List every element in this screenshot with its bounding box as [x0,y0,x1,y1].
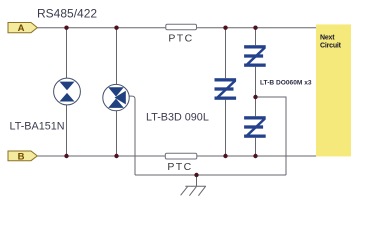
junction B-GDT2 [114,154,118,158]
junction TVS midpoint [253,95,257,99]
svg-text:Next: Next [320,34,335,41]
junction B-D3 [253,154,257,158]
junction A-D1 [223,26,227,30]
wire TVS D2 branch top [255,28,257,46]
wire GDT2 top vertical [116,28,118,85]
svg-text:B: B [18,151,25,162]
svg-text:LT-B DO060M x3: LT-B DO060M x3 [260,80,312,87]
wire GDT2 third electrode to ground bus [129,96,135,175]
wire TVS midpoint tap to ground bus [256,97,287,175]
gas discharge tube GDT1 (LT-BA151N) [54,78,81,105]
junction A-D2 [253,26,257,30]
wire B horizontal from port B to Next Circuit [37,155,316,157]
wire GDT2 bottom vertical [116,111,118,156]
wire ground bus horizontal [135,174,286,176]
junction B-D1 [223,154,227,158]
wire GDT1 bottom vertical [66,105,68,156]
svg-text:LT-BA151N: LT-BA151N [10,121,65,133]
svg-text:RS485/422: RS485/422 [37,7,97,21]
junction ground stem [194,173,198,177]
svg-text:PTC: PTC [168,33,193,45]
wire TVS D2-D3 branch middle [255,67,257,116]
junction B-GDT1 [64,154,68,158]
junction A-GDT1 [64,26,68,30]
resistor PTC top [166,24,197,45]
wire TVS D3 branch bottom [255,138,257,156]
port B [8,151,37,162]
wire A horizontal from port A to Next Circuit [37,27,316,29]
wire TVS D1 branch upper [225,28,227,78]
junction A-GDT2 [114,26,118,30]
TVS D1 left (Z symbol) [215,78,237,100]
ground [181,186,206,196]
wire ground stem [196,175,198,186]
TVS D2 upper right (Z symbol) [244,45,266,67]
svg-text:PTC: PTC [167,161,192,173]
svg-text:LT-B3D 090L: LT-B3D 090L [146,111,209,123]
gas discharge tube GDT2 three-electrode (LT-B3D090L) [103,84,129,110]
wire GDT1 top vertical [66,28,68,78]
resistor PTC bottom [165,153,197,173]
port A [8,23,37,35]
svg-text:Circuit: Circuit [320,43,342,50]
next circuit block [316,24,351,156]
wire TVS D1 branch lower [225,100,227,156]
svg-text:A: A [18,23,25,34]
TVS D3 lower right (Z symbol) [244,116,266,138]
